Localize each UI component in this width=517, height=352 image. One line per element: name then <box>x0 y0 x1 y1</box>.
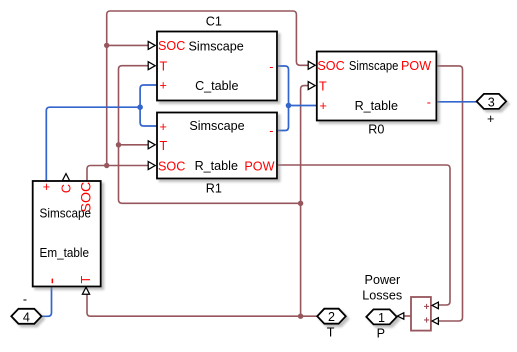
svg-text:R_table: R_table <box>195 159 238 173</box>
svg-text:R0: R0 <box>368 123 384 137</box>
svg-text:R_table: R_table <box>355 99 398 113</box>
svg-text:SOC: SOC <box>158 39 185 53</box>
svg-text:SOC: SOC <box>317 59 344 73</box>
svg-text:T: T <box>327 325 335 339</box>
svg-text:POW: POW <box>244 159 274 173</box>
svg-text:Simscape: Simscape <box>189 119 244 133</box>
svg-text:C1: C1 <box>206 15 222 29</box>
svg-text:+: + <box>320 99 327 113</box>
svg-text:R1: R1 <box>206 181 222 195</box>
svg-text:+: + <box>487 112 494 126</box>
svg-text:Simscape: Simscape <box>189 39 244 53</box>
svg-text:T: T <box>160 60 168 74</box>
svg-text:SOC: SOC <box>158 159 185 173</box>
svg-text:C_table: C_table <box>195 79 238 93</box>
svg-text:T: T <box>319 79 327 93</box>
svg-text:2: 2 <box>328 310 335 324</box>
svg-text:1: 1 <box>378 311 385 325</box>
svg-text:P: P <box>377 326 385 340</box>
svg-text:Losses: Losses <box>362 289 402 303</box>
svg-text:4: 4 <box>23 310 30 324</box>
svg-text:T: T <box>160 139 168 153</box>
svg-text:T: T <box>79 275 93 283</box>
svg-text:+: + <box>160 78 167 92</box>
svg-text:-: - <box>23 293 27 307</box>
svg-text:+: + <box>424 316 430 327</box>
svg-text:-: - <box>269 124 273 138</box>
svg-text:+: + <box>424 302 430 313</box>
svg-text:-: - <box>269 60 273 74</box>
svg-text:Em_table: Em_table <box>40 246 90 260</box>
svg-text:+: + <box>160 120 167 134</box>
svg-text:Simscape: Simscape <box>40 207 92 221</box>
svg-text:Power: Power <box>365 273 401 287</box>
svg-text:C: C <box>60 184 74 193</box>
svg-text:-: - <box>427 96 431 110</box>
svg-text:POW: POW <box>401 59 431 73</box>
svg-text:+: + <box>43 180 50 194</box>
svg-text:3: 3 <box>488 95 495 109</box>
svg-text:Simscape: Simscape <box>349 59 399 73</box>
